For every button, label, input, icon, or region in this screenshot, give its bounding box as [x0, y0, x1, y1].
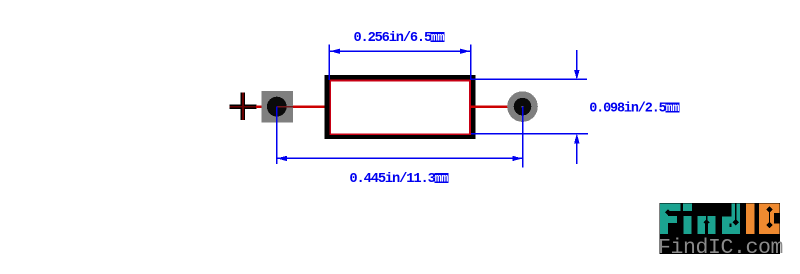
dimension: body height arrow top	[574, 50, 580, 80]
value label: body width 0.256in/6.5mm	[354, 30, 445, 46]
letter I	[746, 204, 754, 235]
letter C	[759, 204, 779, 235]
dimension: body width extension line left	[329, 45, 331, 80]
svg-text:0.098in/2.5: 0.098in/2.5	[589, 101, 666, 117]
wire blue center line pad 2 (drawn over pad)	[522, 107, 524, 168]
letter d	[732, 204, 740, 235]
svg-text:0.256in/6.5: 0.256in/6.5	[354, 30, 432, 46]
wire red lead left (origin to pad 1)	[256, 106, 262, 108]
letter i	[683, 204, 692, 212]
letter n	[698, 216, 716, 224]
svg-text:mm: mm	[431, 32, 445, 45]
pad P1 (square pad)	[262, 91, 294, 122]
wire red lead (pad 1 to body)	[293, 106, 325, 108]
svg-text:mm: mm	[435, 173, 449, 186]
value label: pad pitch 0.445in/11.3mm	[349, 171, 448, 187]
origin marker +	[229, 93, 256, 121]
logo FindIC	[658, 203, 783, 260]
dimension: pad pitch extension line from pad 1	[276, 107, 278, 165]
svg-text:0.445in/11.3: 0.445in/11.3	[349, 171, 435, 187]
wire blue center line pad 1 (drawn over pad)	[276, 107, 278, 165]
wire red lead (body to pad 2)	[471, 106, 523, 108]
dimension: body height bottom extension line	[471, 133, 588, 135]
pad P2 (round pad)	[507, 91, 538, 122]
dimension: body height arrow bottom	[574, 133, 580, 164]
dimension: body width extension line right	[470, 45, 472, 80]
dimension: body width line with arrows	[330, 49, 470, 55]
component body outline (black)	[327, 78, 473, 137]
svg-text:mm: mm	[666, 102, 680, 115]
letter F	[660, 204, 668, 235]
dimension: body height top extension line	[471, 79, 587, 81]
dimension: pad pitch line with arrows	[277, 156, 523, 162]
svg-text:FindIC.com: FindIC.com	[658, 236, 783, 260]
component body courtyard (red)	[330, 80, 470, 134]
dimension: pad pitch extension line from pad 2	[522, 107, 524, 168]
value label: body height 0.098in/2.5mm	[589, 101, 679, 117]
